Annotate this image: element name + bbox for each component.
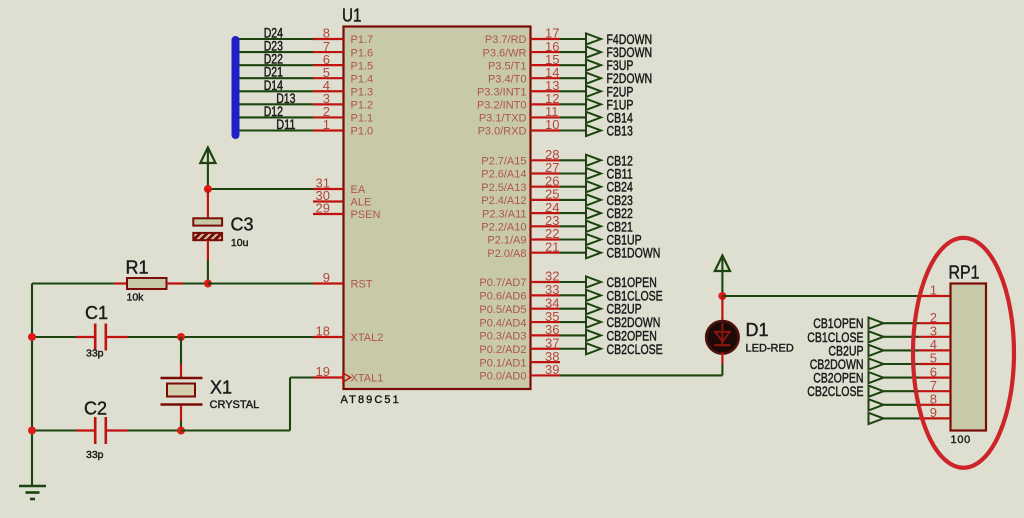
svg-text:P3.7/RD: P3.7/RD — [485, 34, 527, 46]
pin 24 P2.3/A11 — [482, 200, 560, 221]
RP1 pin 1 number — [930, 283, 937, 298]
label C2 — [84, 399, 107, 419]
svg-text:33p: 33p — [86, 348, 104, 360]
svg-text:P2.2/A10: P2.2/A10 — [481, 222, 526, 234]
label D1 — [746, 320, 769, 340]
pin 1 P1.0 — [313, 117, 373, 138]
junction EA/C3 node — [204, 185, 212, 193]
svg-text:C3: C3 — [231, 214, 254, 234]
svg-text:P2.0/A8: P2.0/A8 — [487, 248, 526, 260]
svg-text:9: 9 — [323, 270, 330, 285]
wire LED top node to RP1 pin 1 — [722, 295, 950, 297]
svg-text:P1.5: P1.5 — [351, 60, 374, 72]
net terminal CB1CLOSE — [560, 288, 663, 303]
net terminal CB2CLOSE — [560, 342, 663, 357]
svg-text:P0.4/AD4: P0.4/AD4 — [479, 317, 526, 329]
net terminal CB2DOWN — [560, 315, 660, 330]
svg-text:U1: U1 — [342, 6, 362, 26]
svg-text:P3.1/TXD: P3.1/TXD — [479, 113, 527, 125]
data bus (blue) — [232, 36, 240, 139]
net terminal CB1OPEN — [560, 275, 657, 290]
svg-text:RST: RST — [351, 279, 373, 291]
svg-text:P0.6/AD6: P0.6/AD6 — [479, 291, 526, 303]
net D12 wire from bus — [239, 104, 313, 119]
wire RST node to chip pin 9 — [208, 282, 313, 284]
red highlight ellipse around RP1 — [913, 238, 1014, 468]
net terminal CB23 — [560, 193, 633, 208]
net D14 wire from bus — [239, 78, 313, 93]
pin 39 P0.0/AD0 — [479, 362, 560, 383]
svg-text:1: 1 — [323, 117, 330, 132]
junction R1/C3/RST node — [204, 280, 212, 288]
capacitor C2 — [32, 417, 128, 444]
pin 16 P3.6/WR — [482, 39, 560, 60]
pin 5 P1.4 — [313, 65, 373, 86]
junction C1 row / crystal branch — [177, 333, 185, 341]
pin 19 XTAL1 — [313, 364, 383, 385]
svg-text:P0.5/AD5: P0.5/AD5 — [479, 304, 526, 316]
label U1 — [342, 6, 362, 26]
pin 34 P0.5/AD5 — [479, 295, 560, 316]
wire chip pin 39 to LED cathode — [560, 364, 722, 375]
net D23 wire from bus — [239, 39, 313, 54]
pin 31 EA — [313, 176, 366, 197]
net terminal CB11 — [560, 167, 633, 182]
svg-text:P1.0: P1.0 — [351, 126, 374, 138]
svg-text:P2.7/A15: P2.7/A15 — [481, 156, 526, 168]
net terminal CB1DOWN — [560, 246, 660, 261]
pin 26 P2.5/A13 — [481, 173, 560, 194]
svg-text:19: 19 — [316, 364, 330, 379]
net terminal F1UP — [560, 97, 633, 112]
pin 36 P0.3/AD3 — [479, 322, 560, 343]
pin 7 P1.6 — [313, 39, 373, 60]
svg-text:P1.2: P1.2 — [351, 100, 374, 112]
svg-text:P2.6/A14: P2.6/A14 — [481, 169, 526, 181]
net D22 wire from bus — [239, 52, 313, 67]
svg-text:P0.1/AD1: P0.1/AD1 — [479, 357, 526, 369]
capacitor C1 — [32, 324, 128, 351]
pin 10 P3.0/RXD — [478, 117, 560, 138]
svg-text:21: 21 — [545, 239, 559, 254]
svg-text:P3.4/T0: P3.4/T0 — [488, 73, 527, 85]
junction left rail / C2 — [28, 427, 36, 435]
svg-text:P2.3/A11: P2.3/A11 — [482, 208, 526, 220]
svg-text:D1: D1 — [746, 320, 769, 340]
svg-text:P0.0/AD0: P0.0/AD0 — [479, 371, 526, 383]
pin 37 P0.2/AD2 — [479, 335, 560, 356]
net terminal CB2OPEN — [560, 328, 657, 343]
pin 22 P2.1/A9 — [487, 226, 560, 247]
pin 25 P2.4/A12 — [481, 187, 560, 208]
pin 29 PSEN — [313, 201, 381, 222]
svg-text:100: 100 — [951, 434, 971, 446]
svg-text:P1.3: P1.3 — [351, 86, 374, 98]
svg-text:PSEN: PSEN — [351, 209, 381, 221]
svg-text:10k: 10k — [127, 292, 145, 304]
svg-text:AT89C51: AT89C51 — [341, 394, 401, 406]
RP1 pin 7 terminal — [807, 378, 950, 399]
pin 18 XTAL2 — [313, 324, 383, 345]
label X1 — [210, 378, 232, 398]
RP1 pin 8 terminal — [869, 392, 951, 411]
wire crystal bottom to XTAL1 pin 19 — [181, 378, 313, 431]
svg-text:EA: EA — [351, 184, 366, 196]
net terminal CB22 — [560, 206, 633, 221]
svg-text:XTAL1: XTAL1 — [351, 373, 384, 385]
wire C2 to crystal bottom node — [128, 429, 181, 431]
net D11 wire from bus — [239, 117, 313, 132]
wire EA node to chip pin 31 — [208, 188, 313, 190]
net terminal F3UP — [560, 58, 633, 73]
net D21 wire from bus — [239, 65, 313, 80]
svg-text:P3.6/WR: P3.6/WR — [482, 47, 526, 59]
net terminal F4DOWN — [560, 32, 652, 47]
svg-text:P0.3/AD3: P0.3/AD3 — [479, 331, 526, 343]
RP1 pin 4 terminal — [828, 337, 950, 358]
net terminal CB2UP — [560, 302, 642, 317]
net terminal F2DOWN — [560, 71, 652, 86]
label C1 — [85, 303, 108, 323]
power symbol VCC (above D1) — [715, 256, 730, 297]
svg-text:C2: C2 — [84, 399, 107, 419]
label RP1 — [949, 263, 980, 283]
svg-text:XTAL2: XTAL2 — [351, 332, 384, 344]
svg-text:D11: D11 — [276, 117, 295, 132]
svg-text:C1: C1 — [85, 303, 108, 323]
svg-text:P3.3/INT1: P3.3/INT1 — [477, 86, 527, 98]
net terminal CB1UP — [560, 233, 642, 248]
svg-text:29: 29 — [316, 201, 330, 216]
svg-text:P0.2/AD2: P0.2/AD2 — [479, 344, 526, 356]
net terminal F2UP — [560, 84, 633, 99]
value CRYSTAL — [210, 399, 260, 411]
svg-text:RP1: RP1 — [949, 263, 980, 283]
value 33p (C2) — [86, 449, 104, 461]
svg-text:P2.5/A13: P2.5/A13 — [481, 182, 526, 194]
LED D1 — [706, 296, 739, 364]
wire C1 to XTAL2 pin 18 — [128, 336, 313, 338]
svg-text:10: 10 — [545, 117, 559, 132]
svg-text:9: 9 — [930, 405, 937, 420]
power symbol VCC (top, above C3) — [200, 148, 215, 190]
RP1 pin 5 terminal — [810, 351, 951, 372]
net terminal F3DOWN — [560, 45, 652, 60]
svg-text:R1: R1 — [126, 258, 149, 278]
svg-text:X1: X1 — [210, 378, 232, 398]
crystal X1 — [161, 337, 203, 431]
svg-text:P1.7: P1.7 — [351, 34, 374, 46]
ground symbol — [19, 486, 46, 499]
pin 33 P0.6/AD6 — [479, 282, 560, 303]
value label AT89C51 — [341, 394, 401, 406]
svg-text:CB2CLOSE: CB2CLOSE — [607, 342, 663, 357]
pin 14 P3.4/T0 — [488, 65, 560, 86]
svg-text:P0.7/AD7: P0.7/AD7 — [479, 277, 526, 289]
net terminal CB24 — [560, 180, 633, 195]
value 100 — [951, 434, 971, 446]
junction C2 row / crystal bottom — [177, 427, 185, 435]
pin 6 P1.5 — [313, 52, 373, 72]
junction LED top node — [718, 292, 726, 300]
svg-text:18: 18 — [316, 324, 330, 339]
value 33p (C1) — [86, 348, 104, 360]
RP1 pin 9 terminal — [869, 405, 951, 424]
value LED-RED — [746, 343, 794, 355]
net terminal CB21 — [560, 219, 633, 234]
pin 15 P3.5/T1 — [488, 52, 560, 72]
pin 12 P3.2/INT0 — [477, 91, 560, 112]
pin 30 ALE — [313, 188, 371, 209]
svg-text:P3.0/RXD: P3.0/RXD — [478, 126, 527, 138]
pin 3 P1.2 — [313, 91, 373, 112]
svg-text:10u: 10u — [231, 237, 249, 249]
svg-text:P1.6: P1.6 — [351, 47, 374, 59]
value 10k — [127, 292, 145, 304]
pin 4 P1.3 — [313, 78, 373, 99]
svg-text:1: 1 — [930, 283, 937, 298]
pin 17 P3.7/RD — [485, 26, 560, 47]
svg-text:P2.1/A9: P2.1/A9 — [487, 235, 526, 247]
pin 21 P2.0/A8 — [487, 239, 560, 260]
pin 38 P0.1/AD1 — [479, 349, 560, 370]
pin 28 P2.7/A15 — [481, 147, 560, 168]
pin 32 P0.7/AD7 — [479, 269, 560, 290]
svg-text:P3.2/INT0: P3.2/INT0 — [477, 100, 527, 112]
pin 2 P1.1 — [313, 104, 373, 125]
left vertical rail — [31, 284, 33, 487]
pin 9 RST — [313, 270, 373, 291]
RP1 pin 2 terminal — [813, 310, 950, 331]
pin 8 P1.7 — [313, 26, 373, 47]
resistor R1 — [32, 278, 208, 289]
net terminal CB12 — [560, 153, 633, 168]
net D13 wire from bus — [239, 91, 313, 106]
svg-text:LED-RED: LED-RED — [746, 343, 794, 355]
svg-text:CRYSTAL: CRYSTAL — [210, 399, 260, 411]
svg-text:CB2CLOSE: CB2CLOSE — [807, 384, 863, 399]
resistor pack RP1 body — [951, 284, 987, 431]
junction left rail / C1 — [28, 333, 36, 341]
svg-text:P1.4: P1.4 — [351, 73, 374, 85]
svg-text:CB1DOWN: CB1DOWN — [607, 246, 661, 261]
svg-text:P3.5/T1: P3.5/T1 — [488, 60, 527, 72]
IC U1 AT89C51 body — [344, 27, 531, 390]
RP1 pin 6 terminal — [813, 364, 950, 385]
svg-text:P2.4/A12: P2.4/A12 — [481, 195, 526, 207]
pin 27 P2.6/A14 — [481, 160, 560, 181]
XTAL1 clock input marker — [343, 373, 351, 382]
svg-text:P1.1: P1.1 — [351, 113, 374, 125]
svg-text:ALE: ALE — [351, 197, 372, 209]
pin 11 P3.1/TXD — [479, 104, 560, 125]
svg-text:33p: 33p — [86, 449, 104, 461]
pin 23 P2.2/A10 — [481, 213, 560, 234]
RP1 pin 3 terminal — [807, 324, 950, 345]
net D24 wire from bus — [239, 26, 313, 41]
net terminal CB13 — [560, 123, 633, 138]
net terminal CB14 — [560, 110, 633, 125]
pin 13 P3.3/INT1 — [477, 78, 560, 99]
svg-text:39: 39 — [545, 362, 559, 377]
label R1 — [126, 258, 149, 278]
capacitor C3 (electrolytic) — [193, 189, 222, 284]
svg-text:CB13: CB13 — [607, 123, 633, 138]
pin 35 P0.4/AD4 — [479, 309, 560, 330]
value 10u — [231, 237, 249, 249]
label C3 — [231, 214, 254, 234]
